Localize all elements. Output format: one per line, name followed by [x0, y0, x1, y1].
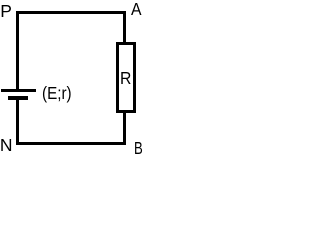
- wire left upper (P to battery): [16, 11, 19, 89]
- label R: [120, 70, 131, 88]
- node B: [134, 140, 143, 158]
- node N: [0, 137, 12, 155]
- wire top (P to A): [16, 11, 126, 14]
- wire right lower (resistor to B): [123, 113, 126, 145]
- battery cell (E;r): [0, 0, 1, 1]
- wire bottom (N to B): [16, 142, 126, 145]
- node P: [0, 3, 12, 21]
- resistor R body: [116, 42, 136, 113]
- node A: [131, 1, 142, 19]
- wire right upper (A to resistor): [123, 11, 126, 42]
- label (E;r): [42, 85, 72, 103]
- wire left lower (battery to N): [16, 100, 19, 145]
